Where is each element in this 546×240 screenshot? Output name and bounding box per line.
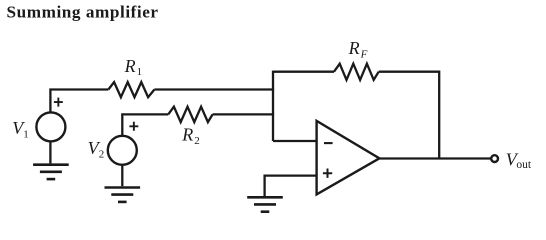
- node: inverting input bus (vertical junction): [272, 71, 274, 141]
- op-amp minus sign: [324, 142, 333, 144]
- wire V1 bottom to ground: [49, 142, 51, 164]
- plus sign of V1: [54, 98, 63, 107]
- wire V2 bottom to ground: [121, 165, 123, 186]
- wire node to op-amp inverting input: [273, 140, 317, 142]
- ground (V1): [33, 163, 69, 166]
- svg-text:out: out: [516, 159, 532, 171]
- voltage source V1: [36, 112, 65, 141]
- wire R2 to inverting node: [213, 113, 275, 115]
- svg-text:1: 1: [23, 129, 29, 141]
- ground (op-amp noninverting input): [247, 196, 283, 199]
- wire V1 top to R1: [50, 90, 108, 114]
- plus sign of V2: [129, 122, 138, 131]
- svg-text:2: 2: [99, 149, 105, 161]
- voltage source V2: [108, 136, 137, 165]
- resistor RF: [334, 64, 379, 80]
- op-amp plus sign: [323, 169, 332, 178]
- svg-text:R: R: [124, 56, 136, 76]
- svg-text:R: R: [348, 38, 360, 58]
- wire op-amp output: [379, 157, 490, 159]
- wire op-amp noninverting input to ground: [265, 176, 317, 196]
- ground (V2): [105, 186, 141, 189]
- svg-text:2: 2: [194, 135, 200, 147]
- wire RF to output node: [379, 72, 440, 159]
- svg-text:F: F: [360, 49, 368, 61]
- svg-text:Summing amplifier: Summing amplifier: [7, 3, 159, 22]
- output terminal: [491, 155, 498, 162]
- wire R1 to inverting node: [154, 88, 274, 90]
- svg-text:R: R: [181, 125, 193, 145]
- resistor R2: [168, 107, 212, 122]
- wire node up to feedback resistor: [273, 71, 334, 73]
- op-amp U1: [317, 121, 380, 194]
- resistor R1: [108, 82, 154, 97]
- wire V2 top to R2: [122, 114, 168, 136]
- svg-text:1: 1: [137, 66, 143, 78]
